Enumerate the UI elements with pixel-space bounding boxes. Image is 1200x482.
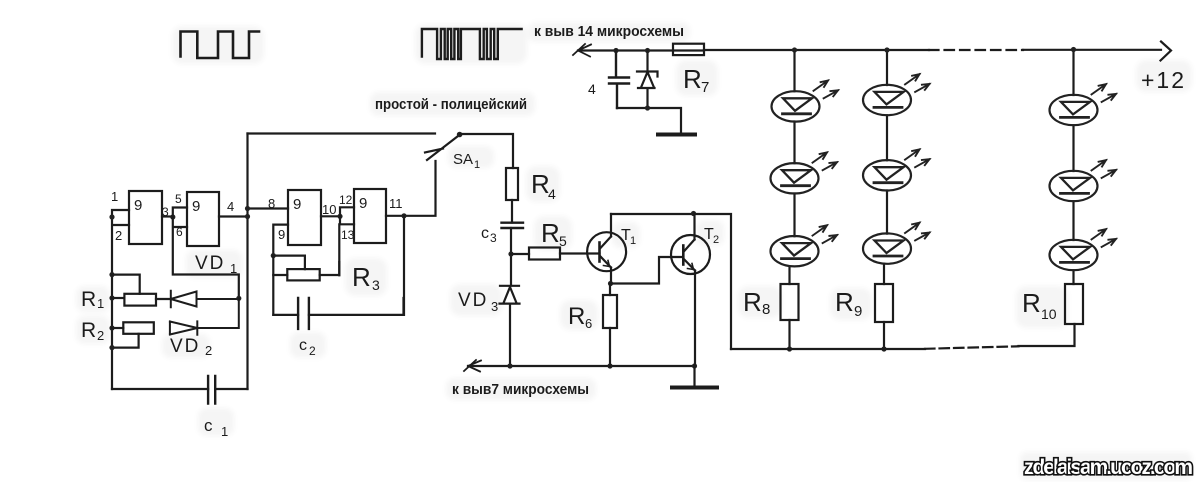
svg-text:1: 1 <box>221 424 228 439</box>
wire C4/zener bottom to ground <box>617 108 681 133</box>
switch SA1 blade <box>425 135 460 161</box>
pin13 step <box>339 216 354 275</box>
svg-text:7: 7 <box>701 79 709 96</box>
svg-text:9: 9 <box>854 303 862 320</box>
svg-text:3: 3 <box>490 231 497 245</box>
wire SA1 to R4 <box>460 134 513 168</box>
resistor R2 <box>123 322 154 334</box>
gate DD1.3 <box>288 190 321 245</box>
wire R5 to T1 base <box>560 252 600 254</box>
wire R10 to rail <box>1019 324 1075 346</box>
svg-text:5: 5 <box>559 233 567 249</box>
LED D5 <box>863 149 930 190</box>
node VD1 VD2 junction <box>236 296 241 301</box>
diode VD1 <box>171 291 239 308</box>
ground T2 <box>672 366 717 387</box>
waveform police <box>422 29 522 59</box>
waveform simple square <box>181 32 260 59</box>
node rail R2 <box>109 325 114 330</box>
gate1 output wire pin3 <box>162 215 173 217</box>
svg-text:VD: VD <box>195 253 225 274</box>
wire R1 right to VD1 <box>156 298 171 300</box>
LED column1 wires <box>790 50 795 284</box>
pin6 step wire <box>173 217 239 298</box>
zener diode VD <box>637 51 658 109</box>
wire to R5 <box>511 253 529 255</box>
wire dashed top <box>929 49 1023 51</box>
wire C2 row <box>273 298 403 315</box>
bottom LED rail <box>731 348 925 350</box>
pin5 step wire <box>173 208 187 218</box>
wire R3 right lead <box>320 262 340 275</box>
svg-text:2: 2 <box>205 343 212 358</box>
node C4 top <box>613 48 618 53</box>
svg-text:3: 3 <box>162 205 169 219</box>
node pin10 <box>337 214 342 219</box>
resistor R3 <box>287 269 319 280</box>
svg-text:12: 12 <box>339 193 353 207</box>
resistor R6 <box>603 295 617 328</box>
wire R3 left lead <box>273 274 287 276</box>
node R6 bottom <box>607 363 612 368</box>
svg-text:R: R <box>1022 288 1041 318</box>
LED D8 <box>1050 160 1117 201</box>
svg-text:3: 3 <box>372 277 380 293</box>
gate DD1.4 <box>354 189 386 243</box>
node col1 top <box>792 47 797 52</box>
svg-text:1: 1 <box>230 261 237 276</box>
LED D6 <box>863 223 930 264</box>
wire R6 leads <box>609 284 611 366</box>
svg-text:3: 3 <box>491 299 498 314</box>
resistor R1 <box>124 294 156 306</box>
wire top supply <box>578 49 1161 52</box>
svg-text:2: 2 <box>115 228 122 243</box>
resistor R5 <box>529 248 560 260</box>
svg-text:9: 9 <box>192 198 200 215</box>
diode VD3 <box>500 286 520 366</box>
svg-text:1: 1 <box>630 235 636 247</box>
svg-text:zdelaisam.ucoz.com: zdelaisam.ucoz.com <box>1024 456 1192 479</box>
wire R1 bridge <box>112 275 140 294</box>
svg-text:R: R <box>743 287 762 317</box>
transistor T1 <box>587 214 626 284</box>
svg-text:R: R <box>568 303 585 330</box>
ground near R7 <box>658 133 695 137</box>
pin8 wire <box>248 207 289 209</box>
arrow +12 (right) <box>1161 42 1172 61</box>
resistor R7 <box>673 44 704 55</box>
capacitor C3 <box>502 223 524 228</box>
svg-text:11: 11 <box>389 196 403 211</box>
svg-text:простой - полицейский: простой - полицейский <box>375 96 527 113</box>
wire pin11 down to C2 <box>403 216 405 315</box>
bottom wire to pin7 <box>468 365 695 367</box>
svg-text:R: R <box>835 287 854 317</box>
gate DD1.2 <box>187 192 219 246</box>
svg-text:+12: +12 <box>1141 67 1186 93</box>
svg-text:R: R <box>683 64 702 94</box>
LED D9 <box>1050 229 1117 270</box>
wire R8 to rail <box>788 320 790 349</box>
node R5 branch <box>508 251 513 256</box>
node gate1 inputs <box>109 214 114 219</box>
node T2 emitter bottom <box>692 363 697 368</box>
svg-text:10: 10 <box>1041 306 1057 322</box>
svg-text:5: 5 <box>175 192 182 206</box>
node zener bottom <box>645 105 650 110</box>
gate4 output pin11 <box>386 161 436 216</box>
rail left big <box>246 134 248 390</box>
bottom rail dashed <box>925 346 1019 349</box>
node rail R1 <box>109 295 114 300</box>
svg-text:8: 8 <box>762 301 770 318</box>
svg-text:R: R <box>81 288 96 311</box>
node pin3 <box>170 214 175 219</box>
svg-text:9: 9 <box>359 195 367 212</box>
LED D2 <box>771 152 838 193</box>
svg-text:9: 9 <box>278 227 285 242</box>
svg-text:к выв7 микросхемы: к выв7 микросхемы <box>452 381 589 398</box>
svg-text:4: 4 <box>227 199 234 214</box>
node T2 collector top <box>691 211 696 216</box>
wire R9 to rail <box>883 322 885 349</box>
node col2 top <box>884 47 889 52</box>
gate2 output wire pin4 <box>219 215 248 217</box>
gate DD1.1 <box>129 191 162 244</box>
LED D7 <box>1050 84 1117 125</box>
svg-text:R: R <box>531 169 550 199</box>
resistor R9 <box>875 284 893 322</box>
svg-text:8: 8 <box>268 196 275 211</box>
wire R2 left lead <box>112 327 123 329</box>
svg-text:9: 9 <box>134 197 142 214</box>
svg-text:10: 10 <box>322 202 336 217</box>
svg-text:к выв 14 микросхемы: к выв 14 микросхемы <box>534 23 684 40</box>
svg-text:с: с <box>299 337 307 354</box>
svg-text:R: R <box>352 262 371 292</box>
diode VD2 <box>170 298 239 334</box>
svg-text:4: 4 <box>548 186 556 202</box>
svg-text:4: 4 <box>588 81 596 97</box>
svg-text:2: 2 <box>713 234 719 246</box>
oscillator top wire <box>248 132 436 134</box>
svg-text:2: 2 <box>97 328 104 343</box>
capacitor C4 <box>609 51 629 109</box>
wire C3 down <box>510 228 512 285</box>
node col3 top <box>1071 47 1076 52</box>
LED D4 <box>863 74 930 115</box>
LED D3 <box>771 225 838 266</box>
svg-text:с: с <box>481 225 489 242</box>
node SA1 <box>457 132 463 138</box>
node zener top <box>645 48 650 53</box>
node R9 bottom <box>881 346 886 351</box>
node VD3 bottom <box>507 363 512 368</box>
capacitor C1 <box>208 376 215 404</box>
node pin4 rail <box>245 214 250 219</box>
svg-text:R: R <box>81 319 96 342</box>
rail pin9 down <box>272 256 274 315</box>
bottom wire with C1 <box>112 388 248 390</box>
pin12 step <box>340 207 354 216</box>
svg-text:1: 1 <box>474 159 480 171</box>
node R8 bottom <box>787 346 792 351</box>
arrow to pin14 (left) <box>573 44 591 57</box>
svg-text:VD: VD <box>458 290 488 311</box>
resistor R8 <box>781 284 799 320</box>
arrow pin7 <box>464 360 481 372</box>
svg-text:R: R <box>541 218 560 248</box>
T1 collector top wire <box>611 214 731 349</box>
svg-text:SA: SA <box>453 151 473 168</box>
wire T1 emitter to T2 base <box>611 257 684 284</box>
svg-text:2: 2 <box>309 344 316 358</box>
node pin11 <box>401 213 406 218</box>
resistor R4 <box>506 168 518 200</box>
svg-text:с: с <box>204 416 213 435</box>
svg-text:VD: VD <box>170 336 200 357</box>
resistor R10 <box>1065 284 1083 324</box>
svg-text:1: 1 <box>97 296 104 311</box>
svg-text:9: 9 <box>293 196 301 213</box>
node rail R2 bridge <box>109 345 114 350</box>
wire R3 bridge <box>273 256 305 270</box>
node pin8 rail <box>245 206 250 211</box>
gate3 output pin10 <box>321 215 340 217</box>
LED column2 wires <box>884 50 887 284</box>
LED D1 <box>772 81 839 122</box>
pin9 step wire <box>273 225 288 256</box>
transistor T2 <box>671 214 710 367</box>
node rail R1 bridge <box>109 272 114 277</box>
LED column3 wires <box>1072 50 1074 285</box>
wire R4 to C3 <box>511 200 513 223</box>
wire R1 left lead <box>112 297 124 299</box>
node pin9 rail <box>271 253 276 258</box>
svg-text:6: 6 <box>585 316 592 331</box>
svg-text:1: 1 <box>111 189 118 204</box>
wire R2 bridge <box>112 334 139 348</box>
capacitor C2 <box>298 298 309 329</box>
gate1 input wires <box>112 210 129 389</box>
node T1 emitter / T2 base junction <box>608 281 613 286</box>
svg-text:6: 6 <box>176 225 183 239</box>
svg-text:13: 13 <box>341 228 355 242</box>
